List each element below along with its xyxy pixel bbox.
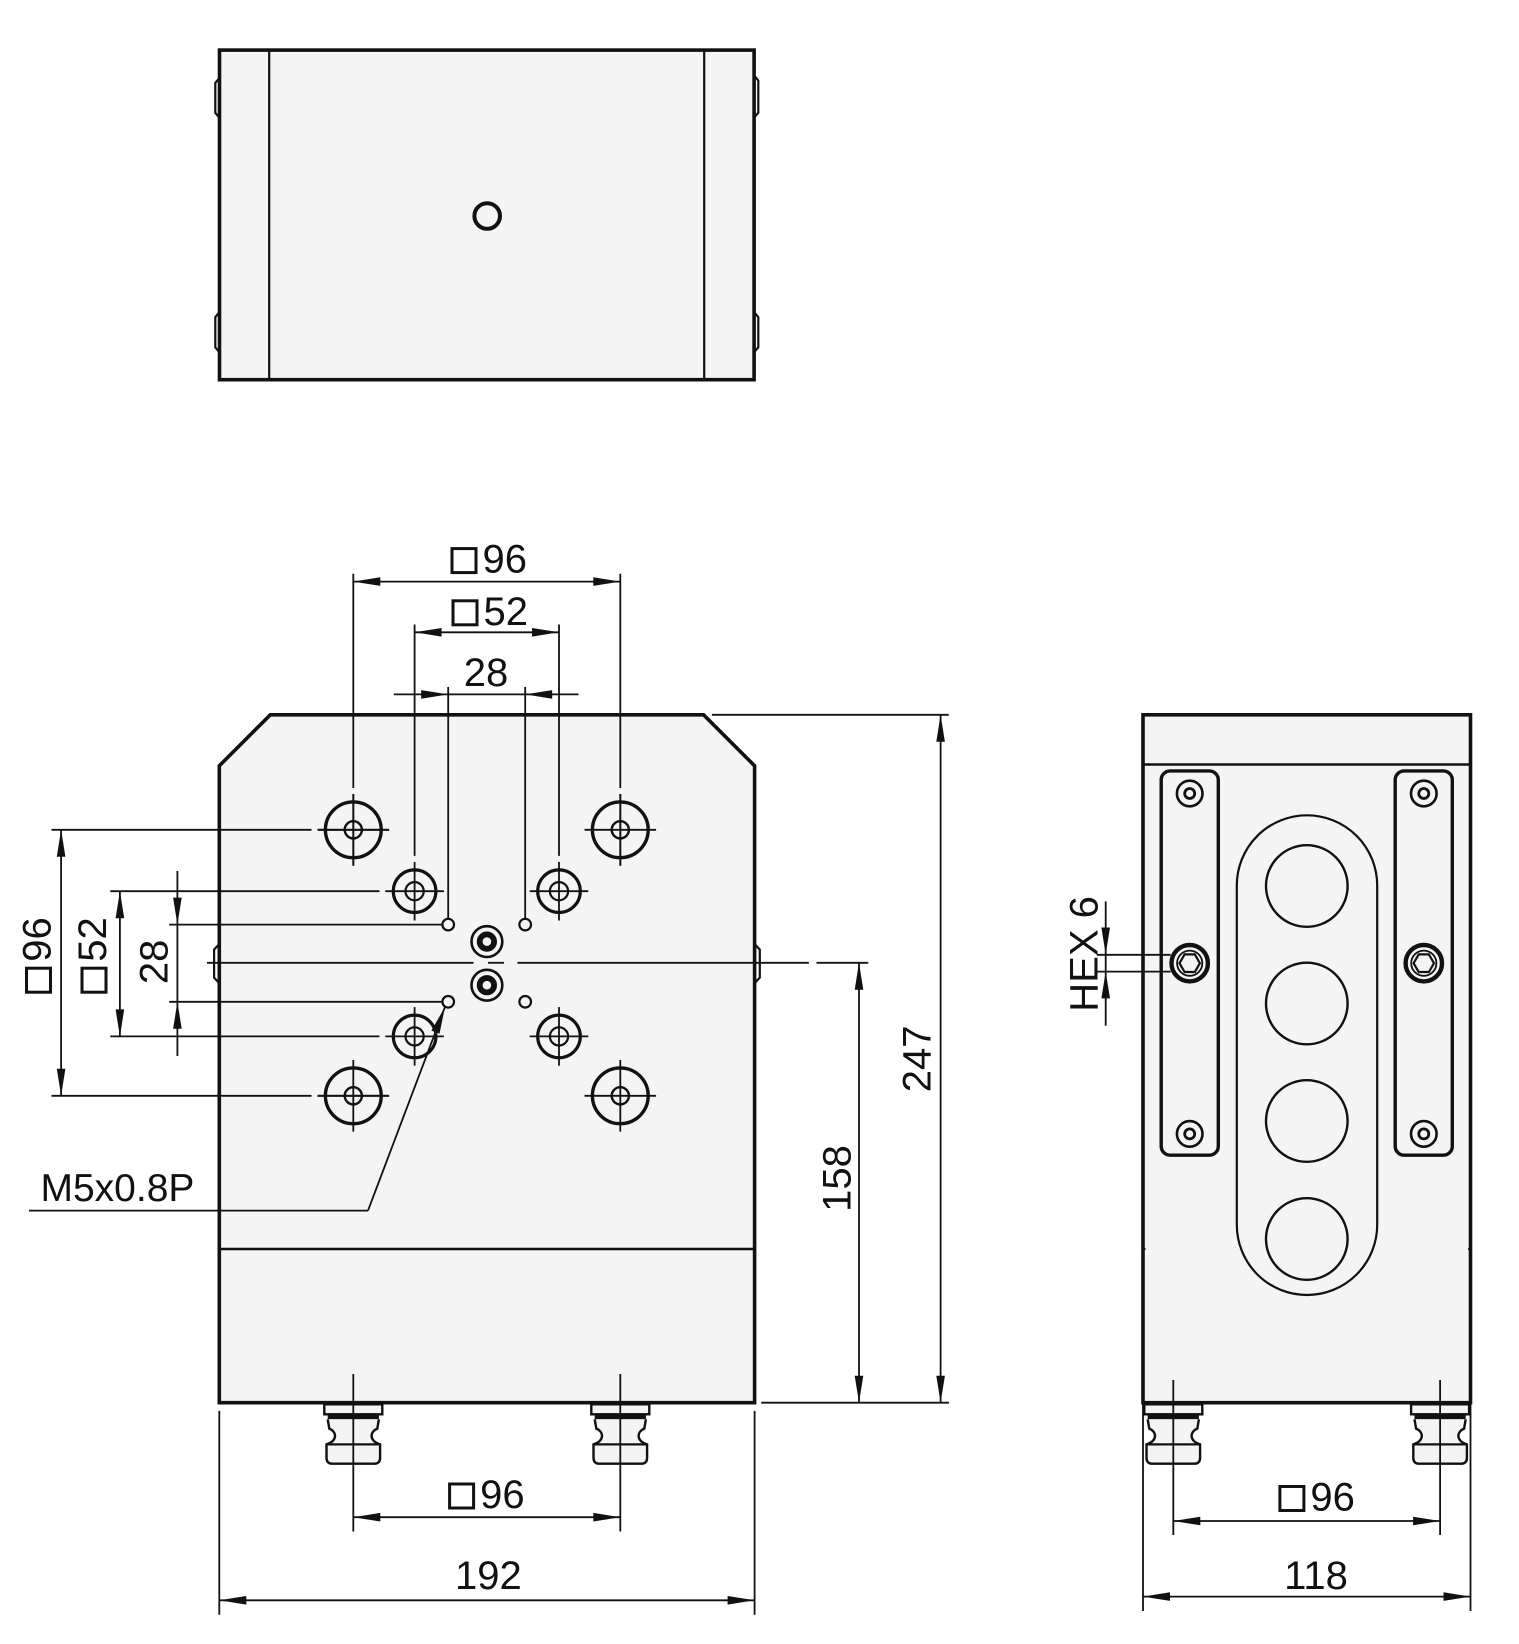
- svg-text:96: 96: [480, 1473, 524, 1517]
- svg-text:HEX 6: HEX 6: [1063, 896, 1107, 1012]
- svg-text:M5x0.8P: M5x0.8P: [41, 1167, 195, 1210]
- svg-text:52: 52: [484, 590, 529, 634]
- svg-text:192: 192: [455, 1554, 522, 1598]
- svg-text:96: 96: [1310, 1476, 1355, 1520]
- svg-text:28: 28: [464, 651, 509, 695]
- svg-text:247: 247: [896, 1026, 940, 1093]
- svg-text:96: 96: [483, 538, 528, 582]
- svg-text:158: 158: [816, 1145, 860, 1212]
- svg-text:28: 28: [133, 940, 177, 985]
- svg-text:52: 52: [71, 917, 115, 962]
- svg-text:118: 118: [1284, 1554, 1348, 1598]
- svg-text:96: 96: [16, 917, 60, 962]
